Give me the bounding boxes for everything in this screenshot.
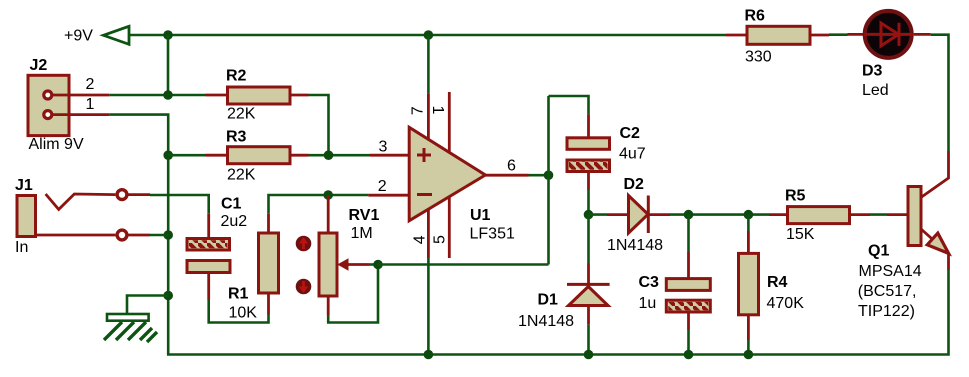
svg-text:TIP122): TIP122) [858,303,915,320]
resistor R4 [739,215,805,355]
svg-text:15K: 15K [786,226,815,243]
up actuator button of RV1 [296,236,312,252]
pin 3 stub of U1 [370,154,410,157]
junction R4/R5 node [744,210,754,220]
junction wiper node [373,260,383,270]
svg-text:4u7: 4u7 [619,145,646,162]
svg-text:330: 330 [745,49,772,66]
pin 2 stub of U1 [368,194,410,197]
svg-text:470K: 470K [767,295,805,312]
wire R2 right to R3 node [309,95,329,155]
svg-text:(BC517,: (BC517, [858,283,917,300]
svg-text:R4: R4 [767,274,788,291]
svg-text:D2: D2 [624,176,645,193]
svg-text:5: 5 [432,235,449,244]
pin stub J2 pin 2 [53,94,110,97]
resistor R1 [228,213,279,321]
wire D2 to R5 [689,213,770,216]
svg-text:22K: 22K [227,167,256,184]
svg-text:Led: Led [862,82,889,99]
junction C3 node [684,210,694,220]
svg-text:D3: D3 [862,62,883,79]
junction divider node [324,150,334,160]
svg-text:LF351: LF351 [470,226,515,243]
svg-text:4: 4 [412,235,429,244]
wire R1 top to inverting node [269,195,329,213]
wire top +9V rail [129,34,726,37]
pin 5 stub of U1 [448,197,451,258]
diode D2 [589,176,689,254]
svg-text:R1: R1 [228,285,249,302]
wire wiper to feedback line [369,263,378,266]
transistor Q1 [858,151,949,320]
pin stub D3 cathode [914,33,931,36]
wire GND net: J2 pin1 down left rail, bottom rail, up to Q1 emitter [110,115,949,355]
svg-text:R5: R5 [785,188,806,205]
svg-text:R2: R2 [226,68,247,85]
svg-text:+9V: +9V [64,28,93,45]
wire R5 to Q1 base [870,213,887,216]
wire J1 tip to C1 [150,195,209,213]
junction pin4 / bottom rail [424,350,434,360]
wire +9V vertical drop to J2 pin 2 [167,35,170,95]
svg-text:J1: J1 [15,177,33,194]
svg-text:3: 3 [379,139,388,156]
op-amp U1 [409,127,515,242]
capacitor C3 [639,215,711,355]
svg-text:7: 7 [410,106,427,115]
wire J2 pin2 to junction [109,94,205,97]
svg-text:1N4148: 1N4148 [518,313,574,330]
junction inverting input node [323,190,333,200]
svg-text:6: 6 [507,158,516,175]
svg-text:U1: U1 [470,207,491,224]
svg-text:1u: 1u [639,295,657,312]
svg-text:C1: C1 [221,196,242,213]
wire output to node [529,174,549,177]
junction GND rail / J1 sleeve [163,230,173,240]
svg-text:22K: 22K [227,106,256,123]
ground symbol [104,296,168,343]
capacitor C2 [567,114,646,190]
resistor R5 [769,188,870,244]
resistor R3 [168,129,308,184]
junction R4 / bottom rail [744,350,754,360]
junction C3 / bottom rail [684,350,694,360]
node junction top rail / J2 branch [163,30,173,40]
svg-text:In: In [15,239,28,256]
svg-text:R6: R6 [745,8,766,25]
wire feedback from output to wiper node [378,263,549,266]
svg-text:1N4148: 1N4148 [607,237,663,254]
svg-text:2u2: 2u2 [221,213,248,230]
svg-text:Q1: Q1 [868,242,889,259]
pin 6 stub of U1 output [485,174,528,177]
svg-text:J2: J2 [30,57,48,74]
svg-text:R3: R3 [226,129,247,146]
capacitor C1 [187,196,247,301]
resistor R2 [206,68,309,123]
svg-text:1: 1 [86,96,95,113]
LED D3 [848,11,913,99]
wire R3 to op-amp pin 3 [309,154,371,157]
pin 7 stub of U1 [427,94,430,140]
svg-text:Alim 9V: Alim 9V [29,136,84,153]
wire RV1 bottom to wiper node [328,265,378,323]
svg-text:C3: C3 [639,274,660,291]
wire D3 to Q1 collector [931,35,949,151]
junction output node [544,170,554,180]
wire C2 bottom to D2 node [587,190,590,215]
power +9V symbol [64,26,129,44]
wire inverting node to op-amp pin 2 [328,194,368,197]
wire output vertical [547,96,550,265]
resistor R6 [726,8,829,66]
svg-text:D1: D1 [538,292,559,309]
junction GND rail / ground symbol branch [163,291,173,301]
wire pin 7 to +9V rail [427,35,430,94]
junction GND rail / R3 [163,150,173,160]
wire C1 bottom to R1 bottom [209,300,269,323]
svg-text:1M: 1M [351,225,373,242]
potentiometer RV1 [319,195,379,315]
wire J1 sleeve to GND rail [150,234,168,237]
svg-text:2: 2 [86,76,95,93]
wire R6 to D3 [829,33,848,36]
connector J1 audio jack [15,177,150,256]
wire output top to C2 [549,96,589,114]
pin 4 stub of U1 [427,210,430,259]
svg-text:10K: 10K [229,304,258,321]
junction C2/D1/D2 node [584,210,594,220]
svg-text:RV1: RV1 [349,207,380,224]
connector J2 [28,57,84,153]
junction J2 pin2 node [163,90,173,100]
junction D1 / bottom rail [584,350,594,360]
down actuator button of RV1 [296,279,312,295]
svg-text:MPSA14: MPSA14 [859,263,922,280]
node junction top rail / op-amp pin7 [424,30,434,40]
svg-text:C2: C2 [620,125,641,142]
wire pin 4 to GND rail [427,258,430,355]
svg-text:2: 2 [378,178,387,195]
svg-text:1: 1 [429,105,446,114]
pin stub J2 pin 1 [53,113,110,116]
pin 1 stub of U1 [448,92,451,152]
diode D1 [518,215,610,355]
